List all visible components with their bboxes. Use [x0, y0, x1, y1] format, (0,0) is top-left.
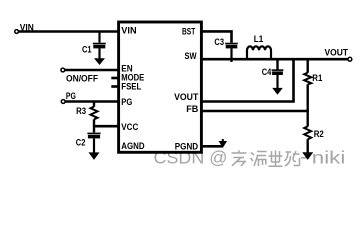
svg-text:PG: PG	[121, 96, 132, 107]
watermark hanzi 2	[251, 152, 267, 167]
capacitor C1	[93, 32, 106, 59]
ground arrow below C2	[89, 152, 100, 160]
wire R3 to C2 node	[93, 119, 95, 132]
svg-text:VOUT: VOUT	[325, 47, 349, 58]
capacitor C4	[272, 70, 284, 88]
svg-text:R1: R1	[312, 72, 322, 83]
wire FB	[201, 110, 309, 113]
IC body U1	[119, 22, 202, 152]
wire VIN input	[18, 30, 118, 33]
svg-text:FB: FB	[186, 103, 198, 114]
svg-text:C2: C2	[76, 136, 86, 147]
terminal VOUT	[348, 57, 352, 61]
terminal PG	[61, 100, 65, 104]
svg-text:SW: SW	[185, 50, 197, 61]
wire PG	[65, 100, 118, 103]
svg-text:VCC: VCC	[121, 121, 138, 132]
capacitor C3	[225, 44, 238, 63]
ground arrow below C1	[94, 58, 105, 65]
svg-text:VIN: VIN	[20, 21, 34, 32]
svg-text:C3: C3	[214, 36, 224, 47]
svg-text:AGND: AGND	[121, 140, 144, 151]
wire PGND	[201, 145, 222, 148]
capacitor C2	[87, 133, 100, 152]
wire VCC	[94, 125, 118, 128]
wire ON/OFF to EN	[65, 69, 118, 72]
svg-text:VIN: VIN	[121, 24, 137, 35]
inductor L1	[247, 46, 271, 59]
resistor R1	[304, 73, 311, 85]
watermark hanzi 4	[285, 151, 300, 166]
ground arrow below C4	[272, 88, 283, 95]
resistor R3	[91, 107, 98, 120]
wire C4 branch	[276, 59, 278, 69]
svg-text:ON/OFF: ON/OFF	[66, 72, 98, 83]
wire R1 to R2	[307, 84, 309, 126]
ground arrow below R2	[302, 152, 313, 160]
watermark hanzi 1	[232, 150, 247, 166]
wire PG node down to R3	[93, 102, 95, 107]
stub MODE pin	[111, 77, 118, 80]
wire R2 bottom	[307, 139, 309, 152]
svg-text:niki: niki	[312, 147, 346, 167]
wire VOUT pin riser	[201, 58, 294, 102]
wire BST	[201, 31, 232, 42]
stub FSEL pin	[111, 85, 118, 88]
svg-text:L1: L1	[254, 33, 263, 44]
wire SW output rail	[201, 58, 348, 61]
svg-text:PGND: PGND	[175, 141, 198, 152]
terminal ON/OFF	[61, 68, 65, 72]
watermark hyphen	[301, 157, 310, 159]
svg-text:FSEL: FSEL	[121, 80, 141, 91]
svg-text:BST: BST	[182, 26, 195, 37]
watermark hanzi 3	[269, 151, 283, 167]
wire R1 top	[307, 59, 309, 73]
ground arrow PGND	[219, 139, 227, 148]
svg-text:C1: C1	[82, 43, 92, 54]
resistor R2	[304, 126, 311, 139]
svg-text:VOUT: VOUT	[174, 91, 198, 102]
svg-text:PG: PG	[66, 90, 76, 101]
svg-text:R3: R3	[76, 105, 86, 116]
svg-text:R2: R2	[314, 128, 324, 139]
svg-text:C4: C4	[262, 66, 272, 77]
terminal VIN	[15, 30, 19, 34]
